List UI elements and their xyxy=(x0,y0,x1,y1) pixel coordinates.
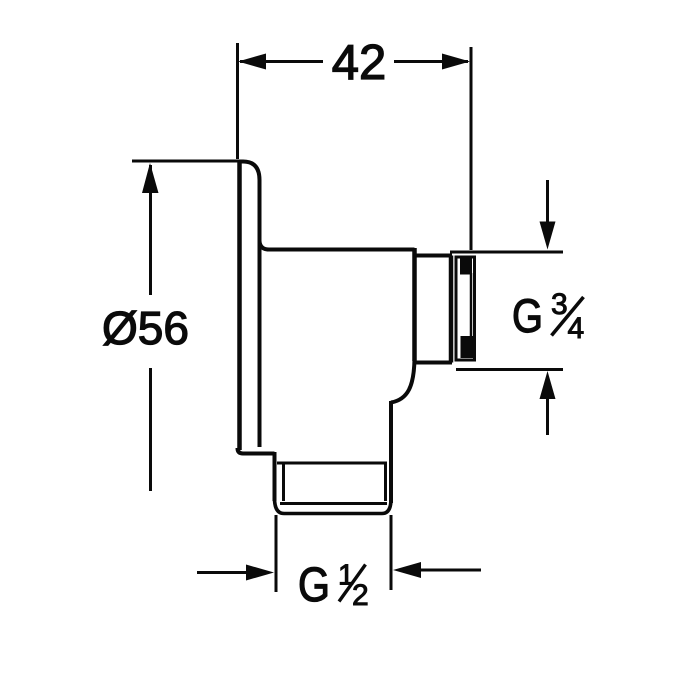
svg-text:G: G xyxy=(512,289,543,342)
svg-text:2: 2 xyxy=(352,579,369,612)
svg-text:G: G xyxy=(298,559,330,612)
svg-text:4: 4 xyxy=(568,312,585,345)
svg-text:Ø56: Ø56 xyxy=(102,302,189,354)
svg-text:3: 3 xyxy=(551,288,568,321)
svg-text:42: 42 xyxy=(332,36,387,90)
